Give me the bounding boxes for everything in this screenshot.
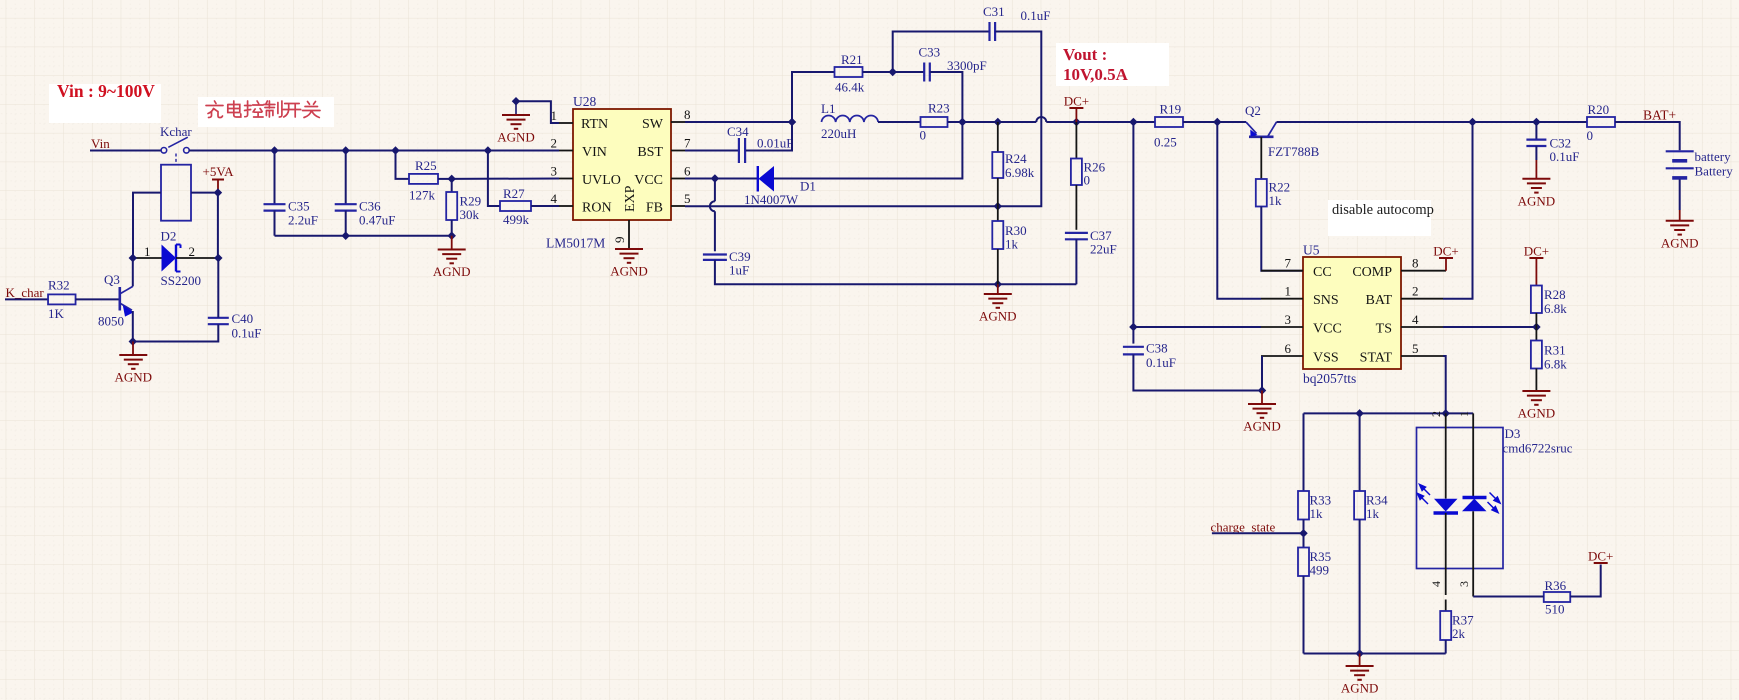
wire R36 to DC+ [1570, 565, 1600, 597]
resistor R25 127k [396, 151, 410, 179]
node R25 junction [391, 146, 399, 154]
svg-text:UVLO: UVLO [582, 173, 621, 188]
node VCC branch junction [1129, 118, 1137, 126]
svg-text:Q2: Q2 [1245, 103, 1261, 118]
title text charge control switch (Chinese) [198, 97, 334, 127]
node SW junction [788, 118, 796, 126]
relay actuator dashed link [175, 154, 177, 165]
svg-text:3300pF: 3300pF [947, 58, 987, 73]
wire C31 branch up [893, 32, 990, 73]
wire R23 to output rail with hop [948, 121, 1037, 123]
svg-text:0.01uF: 0.01uF [757, 136, 793, 151]
wire Q3 emitter down [132, 311, 134, 342]
svg-text:1: 1 [1285, 284, 1292, 299]
svg-text:FB: FB [646, 201, 663, 216]
svg-text:1K: 1K [48, 306, 65, 321]
wire Q2 collector to battery rail [1277, 121, 1588, 123]
svg-text:VCC: VCC [634, 173, 663, 188]
svg-text:1: 1 [1457, 411, 1471, 417]
svg-text:8: 8 [1412, 256, 1419, 271]
title text Vout : 10V,0.5A [1056, 43, 1169, 86]
node +5VA junction [214, 188, 222, 196]
svg-text:cmd6722sruc: cmd6722sruc [1503, 441, 1573, 456]
svg-text:0.1uF: 0.1uF [1021, 8, 1051, 23]
svg-text:RON: RON [582, 201, 612, 216]
node VSS gnd junction [1258, 386, 1266, 394]
svg-text:Vin: Vin [91, 136, 110, 151]
svg-text:DC+: DC+ [1064, 94, 1089, 109]
node DC+ out junction [1072, 118, 1080, 126]
svg-text:FZT788B: FZT788B [1268, 144, 1320, 159]
svg-text:220uH: 220uH [821, 126, 856, 141]
svg-text:1k: 1k [1310, 506, 1324, 521]
svg-text:0: 0 [920, 128, 927, 143]
wire VCC branch down with hop over FB [714, 179, 716, 202]
svg-text:COMP: COMP [1352, 265, 1392, 280]
svg-text:1k: 1k [1366, 506, 1380, 521]
node R27 junction [484, 146, 492, 154]
pin 1 SNS [1261, 298, 1303, 300]
ground AGND input filter [451, 236, 453, 250]
LED emission arrows left [1418, 485, 1431, 505]
wire C34 to SW node [746, 122, 792, 151]
battery Battery [1666, 150, 1694, 152]
svg-text:BAT: BAT [1366, 293, 1393, 308]
wire relay right pin [191, 192, 218, 194]
wire relay left pin [133, 193, 161, 258]
wire C31 to FB node [995, 32, 1041, 207]
svg-text:5: 5 [684, 191, 691, 206]
node STAT/D3 junction [1441, 409, 1449, 417]
ground AGND battery [1666, 220, 1694, 222]
resistor R37 2k [1440, 611, 1451, 640]
pin 7 BST [671, 150, 685, 152]
capacitor C38 0.1uF [1132, 327, 1134, 344]
svg-text:R28: R28 [1544, 287, 1566, 302]
resistor R29 30k [451, 179, 453, 192]
wire C38 to VSS gnd [1133, 354, 1262, 390]
svg-text:TS: TS [1376, 322, 1392, 337]
svg-text:Q3: Q3 [104, 272, 120, 287]
wire C40 to ground rail [133, 324, 219, 341]
svg-text:disable autocomp: disable autocomp [1332, 202, 1434, 218]
svg-text:AGND: AGND [497, 130, 535, 145]
svg-text:STAT: STAT [1360, 351, 1393, 366]
svg-text:1N4007W: 1N4007W [744, 192, 799, 207]
wire R22 to CC pin [1261, 207, 1303, 271]
svg-text:C40: C40 [232, 311, 254, 326]
wire R31 to ground [1535, 369, 1537, 392]
svg-text:3: 3 [1457, 581, 1471, 587]
svg-text:R27: R27 [503, 186, 525, 201]
resistor R30 1k [997, 206, 999, 221]
svg-text:499k: 499k [503, 212, 530, 227]
resistor R26 0 [1075, 122, 1077, 159]
svg-text:DC+: DC+ [1588, 549, 1613, 564]
svg-text:R23: R23 [928, 101, 950, 116]
svg-text:1uF: 1uF [729, 263, 749, 278]
svg-text:3: 3 [1285, 312, 1292, 327]
resistor R24 6.98k [997, 122, 999, 152]
svg-text:battery: battery [1695, 149, 1732, 164]
svg-text:BST: BST [637, 145, 663, 160]
wire Vin rail to U28 [189, 150, 559, 152]
ground AGND at EXP [615, 248, 643, 250]
svg-text:AGND: AGND [115, 370, 153, 385]
wire RTN pin1 to ground [516, 101, 559, 123]
node TS junction [1532, 323, 1540, 331]
svg-text:U5: U5 [1303, 243, 1320, 258]
relay coil box [161, 165, 191, 221]
svg-text:DC+: DC+ [1524, 244, 1549, 259]
svg-text:C36: C36 [359, 199, 381, 214]
wire pin3 continue to R36 [1473, 596, 1544, 598]
node C36 junction [341, 146, 349, 154]
svg-text:10V,0.5A: 10V,0.5A [1063, 65, 1129, 84]
wire Q2 base to R22 [1260, 137, 1262, 179]
node R21/C33/C31 junction [888, 68, 896, 76]
svg-text:0: 0 [1587, 128, 1594, 143]
svg-text:3: 3 [551, 164, 558, 179]
svg-text:5: 5 [1412, 341, 1419, 356]
svg-text:R36: R36 [1545, 578, 1567, 593]
node D2 anode junction [129, 254, 137, 262]
pin 4 RON [559, 205, 573, 207]
resistor R28 6.8k [1531, 286, 1542, 314]
LED D3 left (cathode down) [1434, 499, 1458, 512]
svg-text:R24: R24 [1005, 151, 1027, 166]
node R29 gnd junction [447, 231, 455, 239]
wire FB line [685, 205, 998, 207]
resistor R22 1k [1256, 179, 1267, 207]
svg-text:4: 4 [1412, 312, 1419, 327]
svg-text:0.1uF: 0.1uF [232, 326, 262, 341]
node R25/R29 junction [447, 175, 455, 183]
LED emission arrows right [1488, 493, 1501, 513]
title text Vin : 9~100V [49, 84, 161, 123]
svg-text:K_char: K_char [6, 285, 45, 300]
wire hop over C31 branch [1036, 117, 1046, 122]
svg-text:9: 9 [612, 237, 627, 244]
LED D3 right (cathode up) [1463, 496, 1487, 499]
wire SW node up to R21 [792, 72, 835, 122]
pin 6 VCC [671, 178, 685, 180]
wire L1 to R23 [878, 121, 920, 123]
svg-text:SNS: SNS [1313, 293, 1339, 308]
svg-text:LM5017M: LM5017M [546, 236, 605, 251]
svg-text:8: 8 [684, 107, 691, 122]
op-amp U28 LM5017M body [573, 109, 671, 220]
svg-text:AGND: AGND [1518, 193, 1556, 208]
pin 4 TS [1401, 326, 1443, 328]
wire C33 to output node [930, 72, 963, 122]
svg-text:+5VA: +5VA [203, 164, 235, 179]
svg-text:CC: CC [1313, 265, 1332, 280]
wire R34 branch [1359, 413, 1361, 491]
wire D2 cathode to C40 [217, 258, 219, 318]
wire input gnd rail [275, 235, 452, 237]
svg-text:AGND: AGND [433, 264, 471, 279]
node R34 top junction [1355, 409, 1363, 417]
capacitor C33 3300pF [893, 71, 925, 73]
node VCC/C38 junction [1129, 323, 1137, 331]
svg-text:SW: SW [642, 117, 664, 132]
svg-text:0.25: 0.25 [1154, 135, 1177, 150]
svg-text:C38: C38 [1146, 341, 1168, 356]
svg-text:0.47uF: 0.47uF [359, 213, 395, 228]
svg-text:D1: D1 [800, 179, 816, 194]
svg-text:R21: R21 [841, 52, 863, 67]
svg-text:2: 2 [551, 136, 558, 151]
wire to UVLO pin [452, 178, 559, 180]
node bottom gnd junction [1355, 649, 1363, 657]
pin 5 FB [671, 205, 685, 207]
pin 6 VSS [1261, 355, 1303, 357]
node FB junction [994, 202, 1002, 210]
op-amp U5 bq2057tts body [1303, 257, 1401, 369]
node C36 gnd junction [341, 231, 349, 239]
resistor R35 499 [1303, 533, 1305, 547]
pin 7 CC [1261, 270, 1303, 272]
pin 2 BAT [1401, 298, 1443, 300]
capacitor C40 0.1uF [208, 317, 229, 319]
svg-text:7: 7 [1285, 256, 1292, 271]
wire bottom rail [1304, 653, 1446, 655]
svg-text:charge_state: charge_state [1211, 520, 1276, 535]
svg-text:30k: 30k [460, 207, 480, 222]
node Q3 emitter ground junction [129, 337, 137, 345]
svg-text:AGND: AGND [610, 264, 648, 279]
LED D3 cmd6722sruc box [1417, 428, 1504, 569]
wire R27 to RON pin [531, 205, 559, 207]
wire VSS down [1261, 356, 1263, 391]
svg-text:1: 1 [551, 108, 558, 123]
pin 8 COMP [1401, 270, 1446, 272]
svg-text:510: 510 [1545, 602, 1565, 617]
svg-text:C31: C31 [983, 4, 1005, 19]
pin 2 VIN [559, 150, 573, 152]
wire SNS sense branch [1217, 122, 1261, 299]
svg-text:6: 6 [1285, 341, 1292, 356]
resistor R33 1k [1298, 491, 1309, 520]
wire charge_state [1212, 532, 1304, 534]
svg-text:127k: 127k [409, 188, 436, 203]
wire BAT pin up to rail [1443, 122, 1473, 299]
wire C39 to gnd rail [715, 260, 1077, 284]
svg-text:Vin : 9~100V: Vin : 9~100V [57, 81, 155, 101]
node BAT rail junction [1468, 118, 1476, 126]
ground AGND at VSS [1261, 391, 1263, 405]
capacitor C34 0.01uF bootstrap [685, 150, 738, 152]
svg-text:C35: C35 [288, 199, 310, 214]
svg-text:AGND: AGND [979, 309, 1017, 324]
svg-text:4: 4 [1429, 581, 1443, 587]
svg-text:499: 499 [1310, 563, 1330, 578]
wire LED top rail [1304, 412, 1474, 414]
capacitor C32 0.1uF [1535, 122, 1537, 140]
wire Vin to switch [90, 150, 161, 152]
svg-text:C33: C33 [919, 45, 941, 60]
ground AGND at RTN [502, 114, 530, 116]
wire Q3 collector up to D2 [132, 258, 134, 286]
capacitor C36 0.47uF [345, 151, 347, 205]
wire +5VA down to D2 pin2 [217, 193, 219, 258]
svg-text:R31: R31 [1544, 343, 1566, 358]
svg-text:7: 7 [684, 136, 691, 151]
wire left leg down [1303, 413, 1305, 491]
wire TS line [1443, 326, 1536, 328]
pin 3 UVLO [559, 178, 573, 180]
resistor R34 1k [1354, 491, 1365, 520]
svg-text:bq2057tts: bq2057tts [1303, 371, 1356, 386]
svg-text:C34: C34 [727, 124, 749, 139]
svg-text:VCC: VCC [1313, 322, 1342, 337]
svg-text:AGND: AGND [1661, 235, 1699, 250]
wire D1 anode to output node [774, 122, 962, 179]
wire STAT to D3 [1443, 356, 1446, 413]
svg-text:22uF: 22uF [1090, 242, 1117, 257]
wire left leg to bottom rail [1303, 576, 1305, 654]
svg-text:6.98k: 6.98k [1005, 165, 1035, 180]
svg-text:1k: 1k [1269, 193, 1283, 208]
svg-text:Battery: Battery [1695, 164, 1734, 179]
node pin1 gnd junction [512, 97, 520, 105]
svg-text:VSS: VSS [1313, 351, 1339, 366]
node VCC junction [711, 174, 719, 182]
ground AGND under R31 [1522, 390, 1550, 392]
svg-text:6.8k: 6.8k [1544, 357, 1567, 372]
capacitor C31 0.1uF [988, 22, 990, 41]
svg-text:46.4k: 46.4k [835, 80, 865, 95]
svg-text:AGND: AGND [1341, 681, 1379, 696]
wire VCC supply branch [1133, 122, 1261, 327]
svg-text:EXP: EXP [623, 185, 638, 212]
ground AGND at Q3 emitter [132, 342, 134, 356]
wire VCC pin to D1 [685, 178, 758, 180]
diode D1 1N4007W [757, 166, 759, 192]
svg-text:2: 2 [1412, 284, 1419, 299]
resistor R27 499k [488, 151, 500, 207]
svg-text:6: 6 [684, 164, 691, 179]
capacitor C37 22uF [1065, 232, 1088, 234]
svg-text:L1: L1 [821, 101, 835, 116]
ground AGND LED section [1359, 654, 1361, 667]
svg-text:D3: D3 [1505, 426, 1521, 441]
svg-text:R20: R20 [1588, 102, 1610, 117]
wire R20 to battery [1615, 122, 1680, 150]
svg-text:VIN: VIN [582, 145, 607, 160]
svg-text:R19: R19 [1160, 102, 1182, 117]
svg-text:2: 2 [189, 244, 196, 259]
wire battery to ground [1679, 180, 1681, 211]
svg-text:4: 4 [551, 191, 558, 206]
svg-text:0.1uF: 0.1uF [1146, 355, 1176, 370]
ground AGND output divider [997, 284, 999, 294]
pin 8 SW [671, 121, 685, 123]
svg-text:6.8k: 6.8k [1544, 301, 1567, 316]
svg-text:Vout :: Vout : [1063, 45, 1107, 64]
svg-text:AGND: AGND [1518, 406, 1556, 421]
pin 1 RTN [559, 122, 573, 124]
svg-text:D2: D2 [161, 229, 177, 244]
capacitor C39 1uF [703, 253, 727, 255]
node output C33 junction [958, 118, 966, 126]
node C32 junction [1532, 118, 1540, 126]
svg-text:0: 0 [1084, 173, 1091, 188]
node charge_state junction [1299, 529, 1307, 537]
pin 5 STAT [1401, 355, 1443, 357]
svg-text:2k: 2k [1452, 626, 1466, 641]
node gnd rail junction [994, 280, 1002, 288]
svg-text:RTN: RTN [581, 117, 608, 132]
node C35 junction [270, 146, 278, 154]
resistor R31 6.8k [1535, 327, 1537, 341]
pin 3 VCC [1261, 326, 1303, 328]
svg-text:2: 2 [1429, 411, 1443, 417]
ground AGND at C32 [1522, 178, 1550, 180]
wire R32 to Q3 base [76, 298, 120, 300]
svg-text:0.1uF: 0.1uF [1550, 149, 1580, 164]
svg-text:1k: 1k [1005, 237, 1019, 252]
svg-text:BAT+: BAT+ [1643, 108, 1676, 123]
wire SW to node [685, 121, 792, 123]
svg-text:DC+: DC+ [1433, 244, 1458, 259]
svg-text:U28: U28 [573, 94, 596, 109]
note disable autocomp [1328, 200, 1431, 236]
svg-text:R32: R32 [48, 278, 70, 293]
svg-text:AGND: AGND [1243, 419, 1281, 434]
svg-text:8050: 8050 [98, 314, 124, 329]
svg-text:R25: R25 [415, 158, 437, 173]
wire K_char to R32 [5, 298, 48, 300]
capacitor C35 2.2uF [274, 151, 276, 205]
node Q2 base junction [1213, 118, 1221, 126]
node D2 cathode junction [214, 254, 222, 262]
node R24 top junction [994, 118, 1002, 126]
svg-text:1: 1 [144, 244, 151, 259]
svg-text:2.2uF: 2.2uF [288, 213, 318, 228]
svg-text:SS2200: SS2200 [161, 273, 201, 288]
